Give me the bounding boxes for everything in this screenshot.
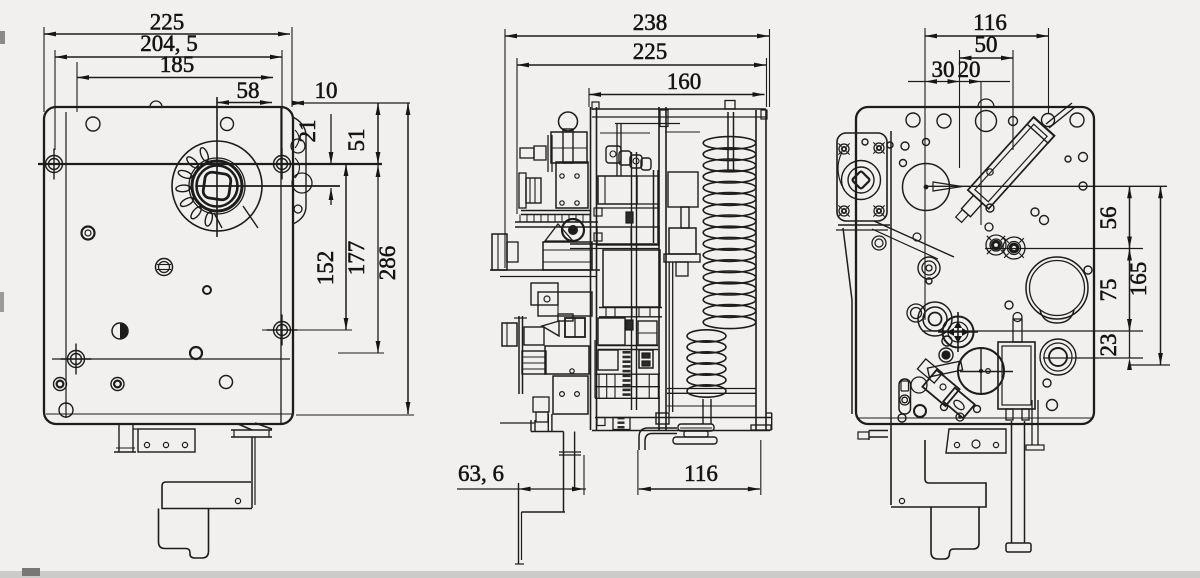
svg-text:58: 58 [237, 78, 260, 103]
right view top hole [1070, 113, 1084, 127]
middle view left shaft box [502, 323, 517, 346]
middle view seat rails [668, 262, 670, 412]
scan edge mark [22, 568, 40, 576]
right view dimension 116 [924, 28, 926, 320]
left view bolt [82, 227, 95, 240]
middle view spring rod [727, 112, 729, 172]
scan edge mark [0, 31, 5, 44]
svg-text:23: 23 [1096, 334, 1121, 357]
right view top hole [937, 114, 951, 128]
right view small hole [1043, 379, 1051, 387]
middle view ribbed block [522, 351, 546, 374]
svg-text:286: 286 [375, 246, 400, 281]
svg-text:75: 75 [1096, 279, 1121, 302]
middle view gear blocks [598, 176, 637, 204]
right view bracket [890, 428, 892, 505]
middle view rack plates [521, 210, 590, 212]
bottom scan band [0, 571, 1200, 578]
right view ref line D [1043, 357, 1143, 359]
svg-text:225: 225 [633, 39, 668, 64]
svg-text:20: 20 [958, 57, 981, 82]
middle view plate with hole [531, 283, 558, 305]
right view capsule slot [899, 379, 911, 414]
right view dimension 75 [1129, 249, 1131, 332]
middle view block left [598, 318, 625, 345]
right view top hole [976, 111, 997, 132]
middle view clamp [565, 318, 585, 337]
left view dimension 152 [262, 329, 352, 331]
right view dimension 23 [1129, 331, 1131, 358]
right view ref line B [985, 248, 1143, 250]
middle view housing A [603, 250, 660, 307]
left view corner screw top-right [274, 156, 291, 173]
svg-text:116: 116 [684, 461, 718, 486]
right view pointer disc [903, 164, 950, 211]
right view actuator cylinder [968, 117, 1054, 209]
middle view elbow pipe [639, 428, 677, 450]
right view small hole [923, 139, 930, 146]
middle view arm box [524, 327, 544, 345]
middle view dimension 63,6 [457, 488, 586, 490]
right view center post [1011, 421, 1013, 543]
right view small hole [900, 160, 907, 167]
right view small hole [1084, 266, 1092, 274]
left view vertical centerline [216, 97, 218, 237]
right view bolt [986, 235, 1006, 255]
middle view dark band [598, 345, 658, 347]
right view left tab [869, 430, 888, 432]
left view main shaft wheel [172, 141, 262, 231]
right view mount screw [874, 206, 884, 216]
svg-text:50: 50 [975, 32, 998, 57]
middle view block band [538, 292, 592, 316]
right view small hole [1065, 156, 1071, 162]
left view bolt [112, 323, 128, 339]
right view dimension 165 [1160, 186, 1162, 365]
right view big bearing [1026, 257, 1088, 319]
right view mount screw [839, 206, 849, 216]
middle view bottom step [530, 420, 532, 432]
left view bracket [251, 437, 253, 508]
right view small hole [898, 414, 906, 422]
middle view chain links [606, 146, 621, 163]
right view lower bearing [1040, 339, 1076, 375]
left view dimension 185 [76, 62, 78, 112]
middle view left flange upper [492, 234, 507, 270]
svg-text:51: 51 [344, 129, 369, 152]
right view foot [931, 507, 979, 559]
middle view roller cam [562, 219, 584, 241]
left view corner screw bottom-right [274, 322, 291, 339]
middle view dimension 225 [516, 58, 518, 214]
left view dimension 58 [217, 102, 272, 104]
right view solenoid [998, 342, 1035, 409]
middle view main spring [703, 137, 756, 150]
middle view pedestal block [543, 242, 592, 270]
middle view dimension 116 [637, 450, 639, 495]
scan edge mark [0, 292, 4, 312]
middle view block lower-left [598, 350, 618, 370]
right view small hole [1040, 216, 1049, 225]
left view dimension 21 [330, 114, 332, 164]
left view main centerline [38, 163, 382, 165]
right view motor mount [837, 133, 887, 221]
svg-text:10: 10 [315, 78, 338, 103]
left view hole [221, 118, 234, 131]
left view foot [159, 509, 209, 559]
left view hole [220, 376, 233, 389]
svg-text:238: 238 [633, 10, 668, 35]
right view dimension 56 [1129, 186, 1131, 248]
middle view thin plate [518, 316, 520, 394]
svg-text:165: 165 [1126, 262, 1151, 297]
right view small hole [887, 142, 893, 148]
right view washer [907, 304, 925, 322]
middle view motor block [551, 132, 587, 163]
middle view pedestal slabs [678, 424, 714, 431]
right view left bracket edge [843, 228, 852, 300]
middle view pinion [639, 350, 653, 368]
right view small hole [1079, 153, 1088, 162]
middle view lower block [553, 376, 588, 414]
left view hole [86, 117, 100, 131]
right view 3-hole plate [946, 429, 1006, 453]
right view post stub [1031, 400, 1033, 445]
svg-text:63, 6: 63, 6 [458, 461, 504, 486]
right view small hole [901, 142, 909, 150]
left view corner screw top-left [46, 156, 63, 173]
middle view block right [638, 321, 657, 345]
middle view divider band [599, 307, 662, 309]
left view body plate [44, 107, 293, 424]
left view dimension 51 [377, 103, 379, 164]
right view crank disc [958, 348, 1004, 394]
svg-text:177: 177 [344, 241, 369, 276]
middle view spring seat [669, 228, 696, 254]
right view dimension 50 [959, 50, 961, 168]
middle view rack teeth [623, 351, 631, 354]
middle view left post [590, 107, 592, 430]
left view bottom tab [118, 424, 120, 452]
middle view dimension 160 [588, 88, 590, 107]
right view ref line A [926, 185, 1167, 187]
right view small hole [1005, 301, 1013, 309]
right view mount screw [839, 144, 849, 154]
middle view inner rods [631, 152, 633, 410]
middle view gearbox grid [595, 373, 660, 375]
middle view cam disc [653, 170, 655, 243]
left view dimension 177 [52, 358, 290, 360]
middle view mid post [658, 107, 660, 430]
middle view platform [595, 417, 772, 419]
middle view top rods [616, 124, 618, 177]
left view bolt [156, 259, 173, 276]
svg-text:30: 30 [932, 57, 955, 82]
right view small hole [941, 404, 948, 411]
right view bolt [1003, 237, 1025, 259]
middle view motor left parts [520, 148, 534, 158]
left view dimension 204,5 [54, 50, 56, 150]
right view small hole [1079, 182, 1087, 190]
right view small hole [862, 139, 868, 145]
svg-text:152: 152 [313, 251, 338, 286]
middle view shelf [570, 243, 659, 245]
right view washer [918, 302, 952, 336]
middle view lower tabs [533, 397, 549, 412]
right view top hole [1042, 114, 1055, 127]
svg-text:185: 185 [160, 52, 195, 77]
left view dimension 286 [296, 414, 414, 416]
left view flange hat [231, 429, 272, 431]
middle view dimension 238 [504, 29, 506, 268]
middle view drop rod [518, 483, 520, 564]
svg-text:56: 56 [1096, 207, 1121, 230]
right view body plate [856, 107, 1094, 424]
left view dimension 225 [43, 27, 45, 112]
right view small hole [1031, 208, 1039, 216]
left view hole [203, 286, 211, 294]
right view top hole [906, 113, 920, 127]
middle view frame top rail [592, 108, 766, 110]
right view ref line C [922, 330, 1143, 332]
left view dimension 10 [292, 102, 410, 104]
left view corner screw bottom-left [68, 351, 85, 368]
right view small hole [926, 278, 932, 284]
right view small hole [974, 406, 981, 413]
left view side plate [293, 117, 306, 224]
left view shaft horizontal line [197, 185, 340, 187]
left view hole [190, 347, 202, 359]
left view bolt [111, 378, 124, 391]
left view bolt [54, 378, 67, 391]
left view hole [59, 403, 73, 417]
svg-text:160: 160 [667, 69, 702, 94]
middle view motor knob [559, 112, 578, 131]
middle view mid block [545, 346, 589, 374]
right view gear with cross [943, 317, 974, 348]
right view ref line E [1130, 364, 1170, 366]
right view dimension 30 20 [908, 81, 1010, 83]
right view mount screw [874, 143, 884, 153]
left view 3-hole plate [138, 429, 195, 452]
middle view right plate [755, 110, 757, 430]
right view small hole [1047, 400, 1058, 411]
right view small hole [986, 204, 994, 212]
right view latch assembly [939, 348, 953, 362]
right view top hole [1009, 117, 1018, 126]
